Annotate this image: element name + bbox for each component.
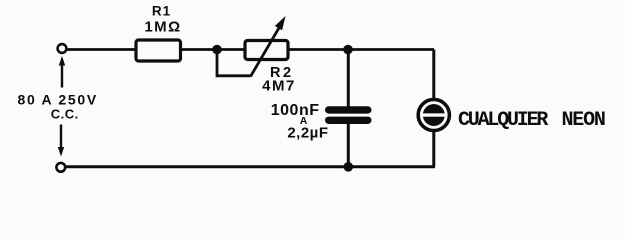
node B junction dot <box>343 45 353 55</box>
terminal bottom-left <box>56 163 65 172</box>
svg-text:80 A 250V: 80 A 250V <box>17 92 97 108</box>
potentiometer R2 wiper arrow <box>251 16 286 77</box>
wire capacitor branch upper <box>347 50 350 107</box>
svg-text:NEON: NEON <box>562 109 605 132</box>
svg-text:C.C.: C.C. <box>51 107 79 122</box>
wire wiper loop <box>217 50 251 76</box>
wire top rail <box>66 48 434 51</box>
wire bottom rail <box>65 165 435 168</box>
node A junction dot <box>212 45 222 55</box>
svg-text:4M7: 4M7 <box>262 78 296 95</box>
svg-text:R1: R1 <box>152 4 171 19</box>
arrow up toward top terminal <box>59 56 65 88</box>
arrow down toward bottom terminal <box>58 125 64 157</box>
wire capacitor branch lower <box>347 124 350 168</box>
potentiometer R2 body <box>245 41 288 60</box>
svg-text:1MΩ: 1MΩ <box>144 19 181 36</box>
resistor R1 body <box>136 40 181 61</box>
terminal top-left <box>58 44 67 53</box>
svg-text:2,2µF: 2,2µF <box>287 125 328 142</box>
neon lamp LP1 <box>418 99 449 130</box>
node C junction dot <box>344 162 354 172</box>
wire right vertical <box>432 50 435 167</box>
svg-text:100nF: 100nF <box>271 102 320 119</box>
capacitor C1 plates <box>325 106 372 124</box>
svg-text:CUALQUIER: CUALQUIER <box>458 109 548 132</box>
